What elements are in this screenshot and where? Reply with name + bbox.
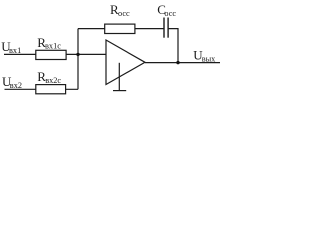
svg-text:осс: осс	[164, 9, 176, 18]
svg-text:вх1с: вх1с	[45, 42, 61, 51]
svg-text:вх1: вх1	[9, 46, 21, 55]
svg-text:осс: осс	[118, 9, 130, 18]
svg-text:вх2: вх2	[10, 81, 22, 90]
svg-text:вых: вых	[202, 54, 216, 63]
svg-text:вх2с: вх2с	[45, 76, 61, 85]
